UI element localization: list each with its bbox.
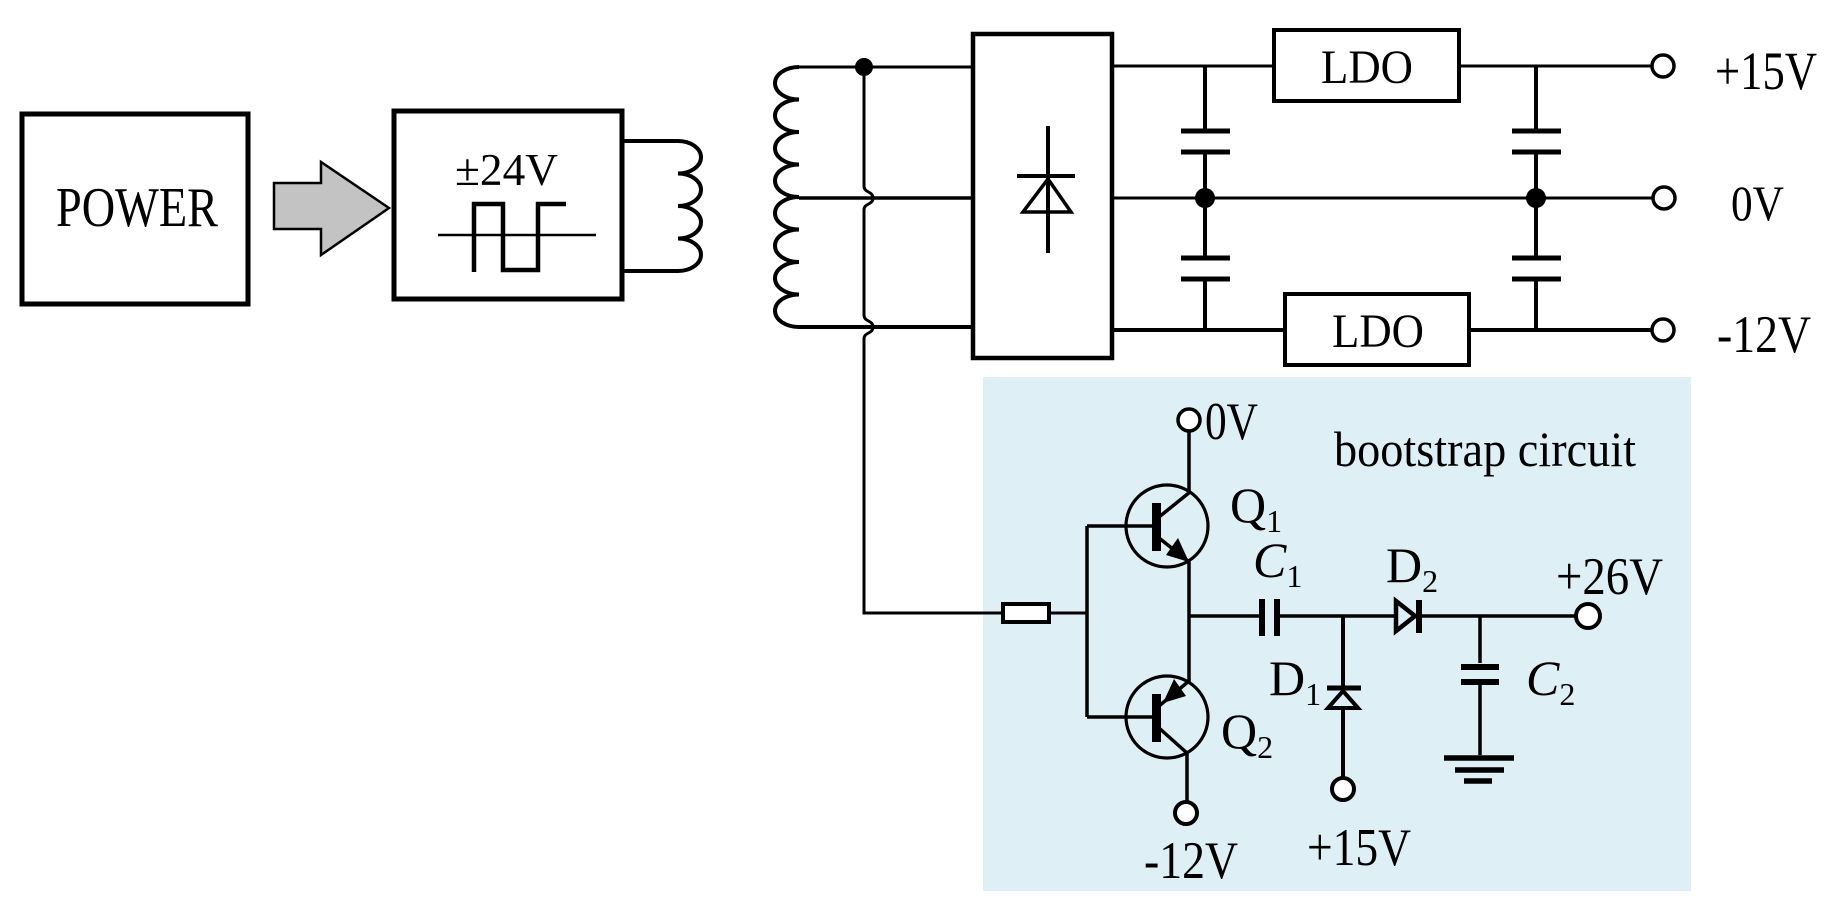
transistor Q1 (NPN) [1126, 485, 1208, 567]
terminal +26V [1576, 604, 1600, 628]
rectifier bridge block [973, 34, 1112, 358]
wire C1 to D2 [1280, 614, 1397, 618]
terminal -12V bootstrap [1175, 802, 1197, 824]
svg-text:POWER: POWER [56, 177, 219, 239]
wire Q1 emitter to output node [1187, 561, 1191, 616]
wire -12V rail [1112, 328, 1652, 332]
wire D2 to +26V terminal [1421, 614, 1576, 618]
ground [1444, 758, 1514, 781]
wire 0V rail [1112, 197, 1653, 200]
POWER box [22, 114, 248, 304]
svg-text:0V: 0V [1731, 175, 1784, 231]
bootstrap circuit shaded region [983, 377, 1691, 891]
svg-text:-12V: -12V [1144, 832, 1238, 890]
terminal +15V [1652, 55, 1674, 77]
wire base bus [1085, 526, 1089, 717]
svg-text:+15V: +15V [1307, 819, 1411, 877]
wire Q2 collector to -12V terminal [1185, 752, 1189, 802]
svg-text:0V: 0V [1205, 393, 1258, 451]
capacitor C1 [1262, 599, 1277, 636]
capacitor C2 [1461, 616, 1499, 755]
terminal 0V [1653, 187, 1675, 209]
capacitor column right: lower cap [1512, 198, 1561, 330]
wire drop to bootstrap with crossover hops [864, 67, 1003, 613]
wire Q2 emitter to output node [1187, 616, 1191, 682]
wire Q2 base [1087, 715, 1152, 719]
svg-text:+15V: +15V [1715, 41, 1817, 101]
terminal 0V bootstrap [1178, 409, 1200, 431]
terminal -12V [1652, 319, 1674, 341]
resistor R1 [1003, 604, 1049, 622]
wire secondary centre tap to rectifier [799, 196, 973, 200]
wire output node to C1 [1189, 614, 1260, 618]
diode D1 [1327, 616, 1361, 778]
junction node top of secondary [855, 58, 873, 76]
svg-text:LDO: LDO [1321, 41, 1413, 94]
svg-text:bootstrap circuit: bootstrap circuit [1334, 421, 1636, 477]
transformer T1 secondary winding [775, 67, 799, 327]
arrow [274, 162, 389, 255]
waveform square wave [474, 204, 566, 272]
wire secondary top to rectifier [799, 66, 973, 69]
svg-text:LDO: LDO [1332, 305, 1424, 358]
transformer T1 primary winding [622, 141, 701, 271]
LDO regulator block 2 [1285, 294, 1469, 365]
capacitor column left: lower cap [1181, 198, 1230, 330]
capacitor column left: upper cap [1181, 66, 1230, 198]
svg-text:-12V: -12V [1717, 306, 1811, 364]
rectifier diode symbol [1046, 126, 1050, 253]
junction node right cap / 0V [1526, 188, 1546, 208]
wire resistor to base bus [1049, 612, 1087, 615]
capacitor column right: upper cap [1512, 66, 1561, 198]
diode D2 [1396, 600, 1419, 633]
svg-text:+26V: +26V [1556, 548, 1663, 606]
wire Q1 base [1087, 524, 1152, 528]
junction node left cap / 0V [1195, 188, 1215, 208]
transistor Q2 (PNP) [1126, 676, 1208, 758]
svg-text:±24V: ±24V [455, 145, 558, 195]
LDO regulator block 1 [1274, 30, 1459, 101]
wire +15V rail [1112, 65, 1652, 68]
waveform axis [438, 234, 596, 237]
terminal +15V bootstrap [1332, 778, 1354, 800]
signal source box U1 [394, 111, 622, 299]
wire secondary bottom to rectifier [799, 325, 973, 329]
wire 0V terminal to Q1 collector [1187, 431, 1191, 493]
